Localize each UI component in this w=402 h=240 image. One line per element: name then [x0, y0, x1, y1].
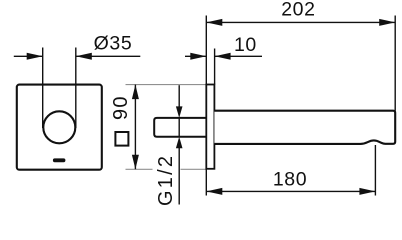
front plate square	[17, 85, 102, 170]
dimension arrow G1/2 lower	[176, 137, 183, 205]
dimension line 10 left segment	[185, 53, 206, 60]
dimension line 202	[206, 19, 395, 26]
projection line top grey	[126, 84, 207, 86]
dimension line 90 vertical	[132, 85, 139, 170]
svg-text:Ø35: Ø35	[94, 33, 133, 55]
dimension line Ø35 left segment	[14, 53, 43, 60]
extension line outlet	[374, 145, 376, 196]
extension line below plate left edge	[205, 169, 207, 196]
svg-text:10: 10	[234, 34, 257, 56]
dimension line 10 right segment	[215, 53, 262, 60]
extension line spout end top	[394, 16, 396, 111]
logo slot	[53, 158, 66, 162]
projection line bottom grey left part	[126, 168, 153, 170]
dimension line Ø35 right segment	[76, 53, 141, 60]
extension line right of Ø35	[75, 48, 77, 129]
label square 90	[110, 95, 132, 145]
dimension arrow G1/2 upper	[176, 85, 183, 118]
svg-text:202: 202	[281, 0, 315, 21]
svg-text:90: 90	[110, 95, 132, 120]
projection line bottom grey right part	[181, 168, 207, 170]
dimension line G1/2 through pipe	[178, 118, 180, 137]
svg-text:G1/2: G1/2	[155, 154, 177, 206]
wall plate side view	[206, 85, 214, 169]
extension line left of Ø35	[42, 48, 44, 129]
supply pipe G1/2	[154, 118, 206, 137]
extension line above plate left edge	[205, 16, 207, 85]
handle circle	[43, 111, 75, 143]
dimension line 180	[206, 188, 375, 195]
spout outline	[214, 111, 395, 144]
extension line above plate right edge	[214, 49, 216, 85]
svg-text:180: 180	[273, 169, 307, 191]
